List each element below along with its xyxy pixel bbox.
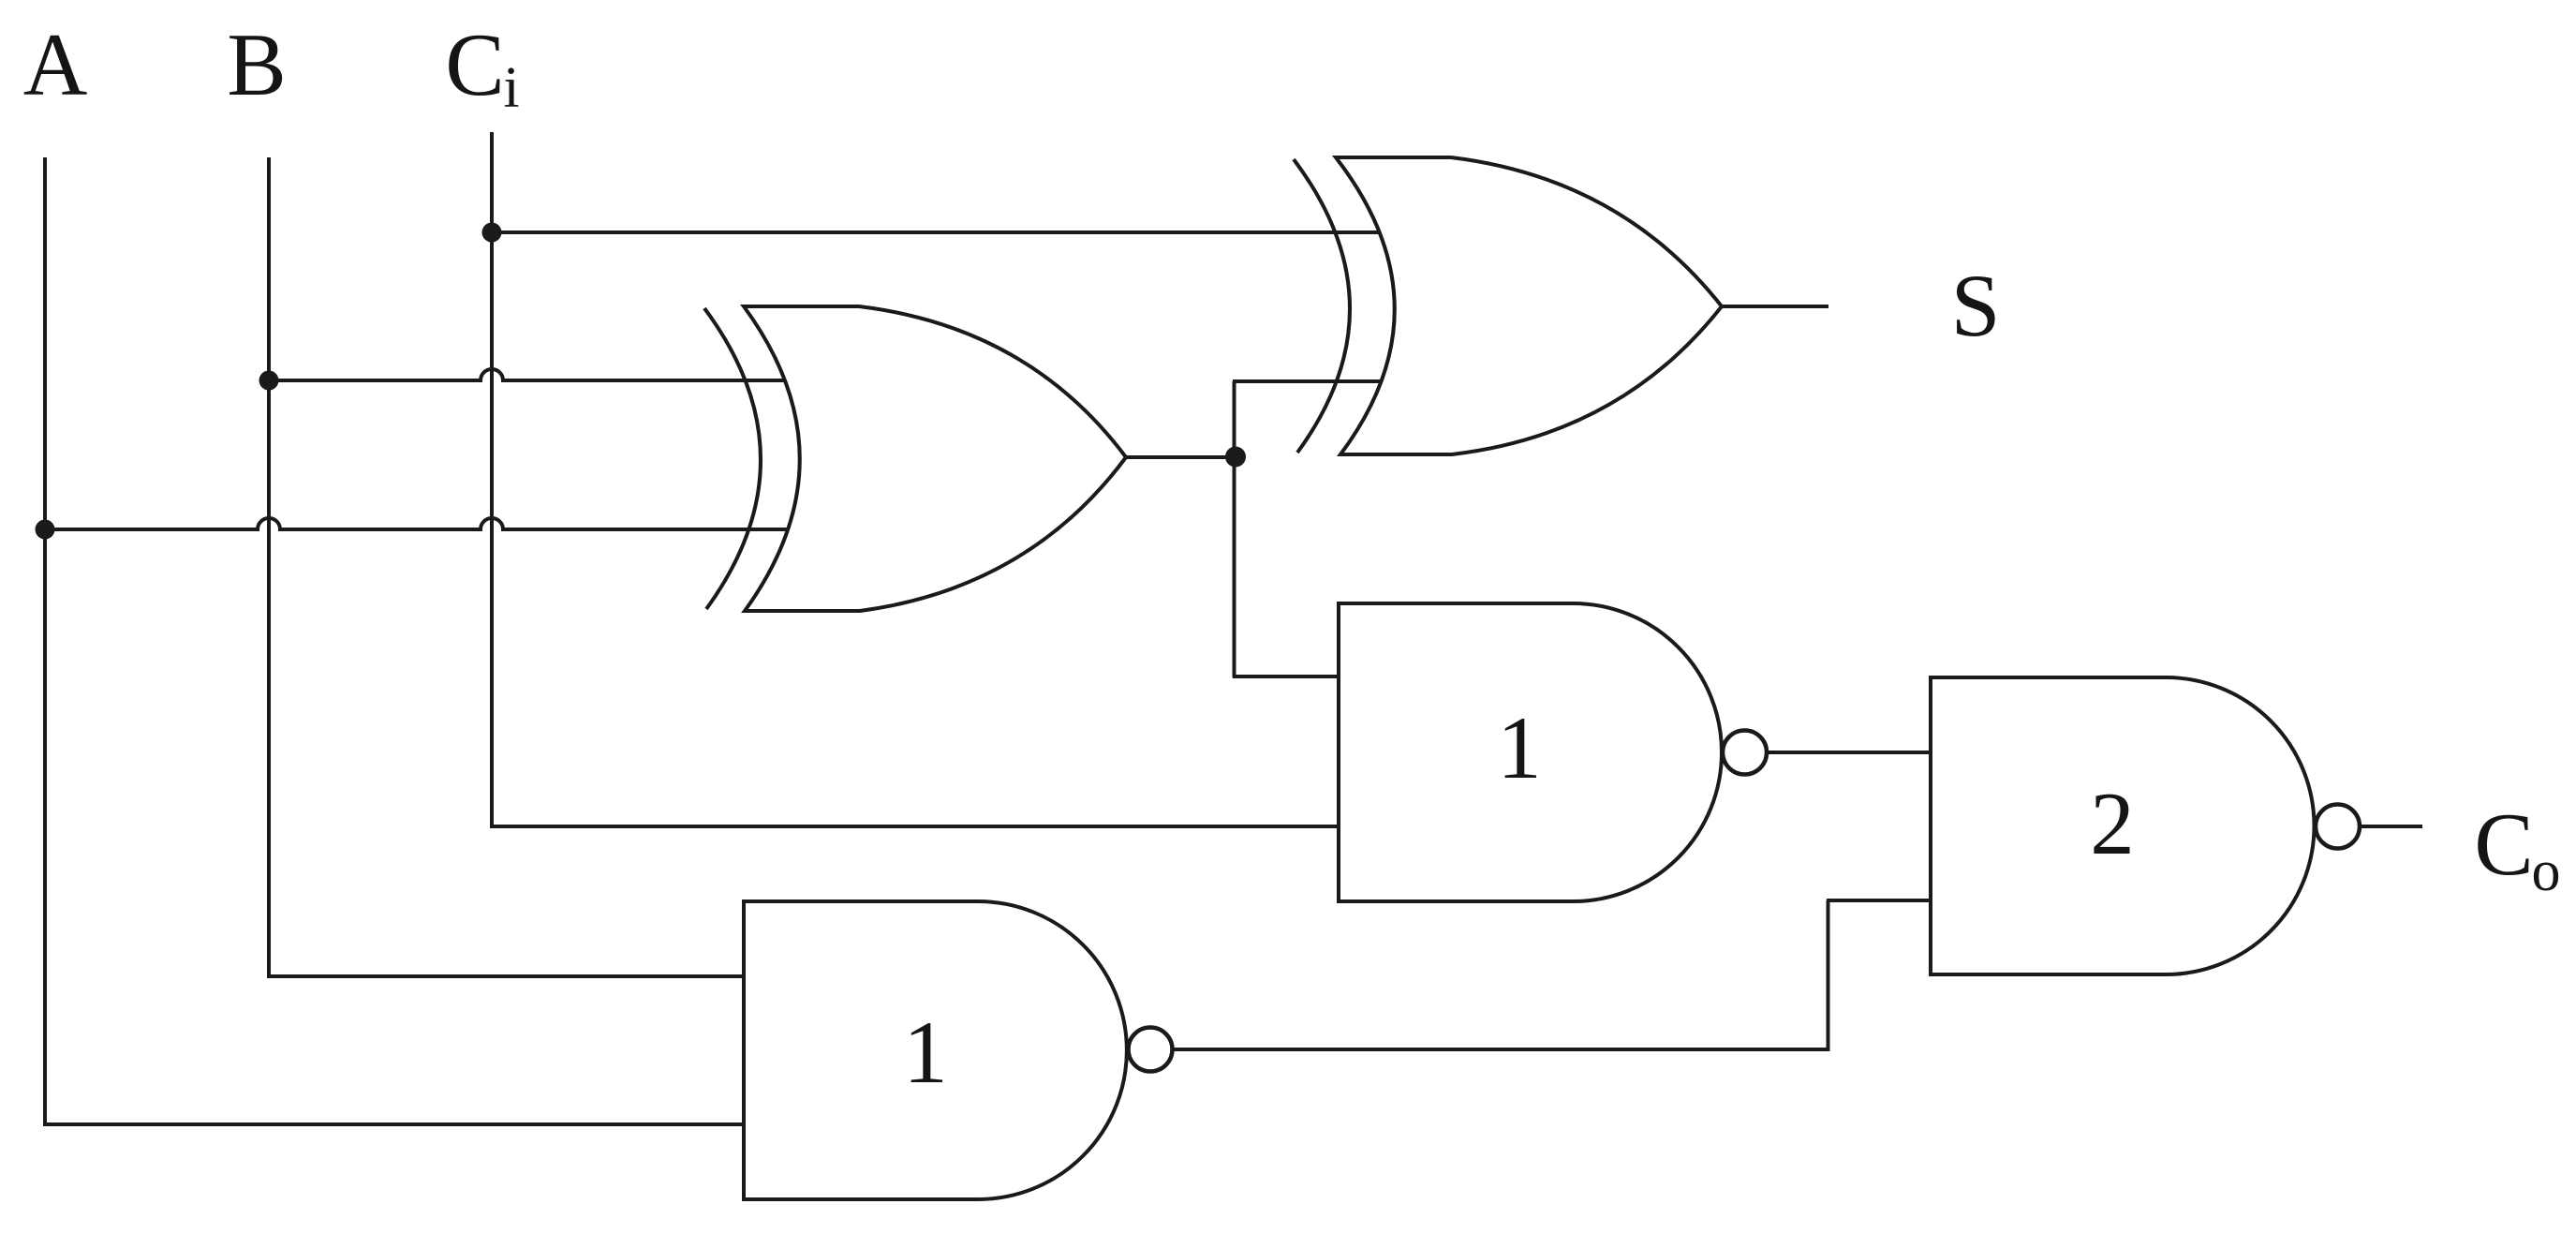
wire Ci vertical (490, 132, 494, 828)
node Co label (2474, 795, 2560, 903)
wire junction to XOR U2 lower input (1233, 379, 1380, 383)
NAND gate 2 body (1931, 677, 2315, 974)
wire Ci to NAND 1 lower input (490, 825, 1340, 828)
NAND gate 2 label (2090, 774, 2135, 873)
wire riser from XOR U1 output junction (1233, 381, 1236, 677)
wire NAND 2 output (Co) (2360, 825, 2422, 828)
svg-text:o: o (2532, 840, 2561, 903)
svg-text:C: C (2474, 795, 2533, 894)
svg-text:A: A (23, 15, 88, 114)
XOR gate U1 input arc (704, 308, 761, 609)
wire junction down to NAND 1 upper input (1233, 675, 1340, 678)
NAND gate 1 (middle) body (1339, 603, 1722, 901)
NAND gate 2 output bubble (2316, 805, 2360, 849)
svg-text:1: 1 (903, 1003, 948, 1102)
wire B to bottom NAND upper input (267, 974, 747, 978)
XOR gate U2 body (1336, 157, 1722, 454)
XOR gate U2 input arc (1294, 159, 1350, 453)
node Ci label (445, 15, 519, 120)
svg-text:1: 1 (1497, 698, 1542, 797)
junction XOR U1 output dot (1225, 447, 1246, 468)
NAND gate 1 (middle) label (1497, 698, 1542, 797)
wire A to XOR U1 lower input (hops over B and Ci) (45, 518, 791, 529)
NAND gate 1 (middle) output bubble (1723, 731, 1767, 775)
wire NAND 1 output to NAND 2 upper input (1767, 751, 1932, 754)
bottom NAND gate 1 body (744, 901, 1127, 1199)
node S label (1951, 256, 2001, 355)
wire B to XOR U1 upper input (hop over Ci) (269, 369, 788, 380)
junction A dot (36, 520, 55, 540)
node B label (227, 15, 286, 114)
XOR gate U1 body (744, 306, 1126, 611)
wire XOR U2 output (S) (1722, 305, 1828, 308)
bottom NAND gate 1 label (903, 1003, 948, 1102)
wire riser to NAND 2 lower input (1827, 900, 1830, 1051)
wire XOR U1 output to junction (1126, 455, 1236, 459)
wire A to bottom NAND lower input (43, 1122, 747, 1126)
svg-text:S: S (1951, 256, 2001, 355)
bottom NAND gate 1 output bubble (1129, 1028, 1173, 1072)
wire B vertical (267, 157, 271, 978)
wire to NAND 2 lower input (1827, 899, 1932, 902)
node A label (23, 15, 88, 114)
junction B dot (259, 371, 279, 391)
wire A vertical (43, 157, 47, 1126)
junction Ci dot (482, 223, 502, 243)
svg-text:B: B (227, 15, 286, 114)
svg-text:2: 2 (2090, 774, 2135, 873)
svg-text:C: C (445, 15, 504, 114)
wire bottom NAND output (1172, 1048, 1829, 1051)
svg-text:i: i (503, 56, 519, 120)
wire Ci to XOR U2 upper input (492, 230, 1379, 234)
